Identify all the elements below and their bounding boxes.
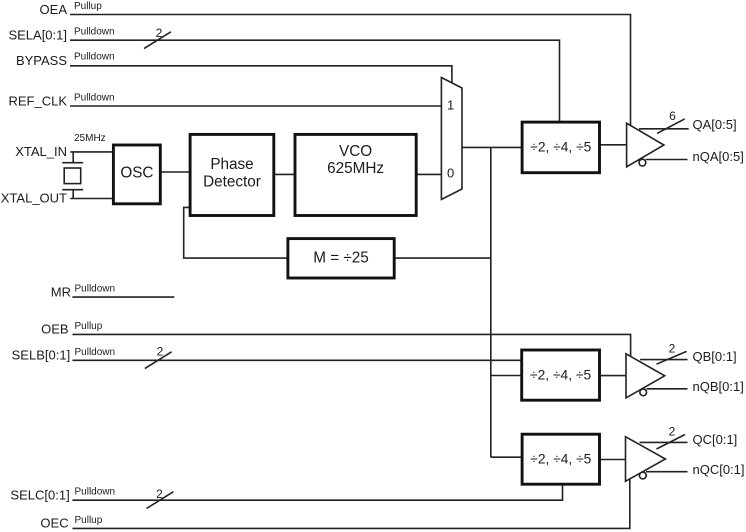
svg-text:Pulldown: Pulldown (75, 347, 116, 358)
svg-text:2: 2 (156, 26, 163, 40)
svg-text:2: 2 (669, 342, 676, 356)
svg-text:÷2, ÷4, ÷5: ÷2, ÷4, ÷5 (530, 140, 591, 155)
svg-text:XTAL_IN: XTAL_IN (15, 144, 67, 159)
svg-text:M = ÷25: M = ÷25 (313, 250, 369, 267)
svg-text:OSC: OSC (120, 164, 153, 181)
svg-text:QC[0:1]: QC[0:1] (693, 432, 738, 447)
svg-text:Pulldown: Pulldown (74, 52, 115, 63)
svg-text:SELC[0:1]: SELC[0:1] (10, 488, 69, 503)
svg-text:OEC: OEC (40, 516, 68, 531)
svg-text:6: 6 (669, 109, 676, 123)
svg-text:MR: MR (51, 284, 71, 299)
svg-text:÷2, ÷4, ÷5: ÷2, ÷4, ÷5 (530, 368, 591, 383)
svg-text:Pulldown: Pulldown (74, 93, 115, 104)
svg-text:Pullup: Pullup (75, 515, 103, 526)
svg-text:QB[0:1]: QB[0:1] (693, 349, 737, 364)
svg-text:2: 2 (157, 344, 164, 358)
svg-text:nQC[0:1]: nQC[0:1] (693, 462, 745, 477)
svg-text:REF_CLK: REF_CLK (8, 93, 67, 108)
svg-text:BYPASS: BYPASS (16, 53, 67, 68)
svg-text:Pullup: Pullup (74, 1, 102, 12)
svg-text:÷2, ÷4, ÷5: ÷2, ÷4, ÷5 (530, 452, 591, 467)
svg-text:nQA[0:5]: nQA[0:5] (693, 149, 744, 164)
svg-text:nQB[0:1]: nQB[0:1] (693, 379, 744, 394)
svg-text:Pulldown: Pulldown (74, 27, 115, 38)
svg-text:0: 0 (447, 165, 454, 180)
svg-text:OEB: OEB (41, 322, 68, 337)
svg-text:VCO: VCO (339, 143, 372, 160)
svg-text:Pulldown: Pulldown (75, 284, 116, 295)
svg-text:Pulldown: Pulldown (75, 487, 116, 498)
svg-text:XTAL_OUT: XTAL_OUT (1, 191, 67, 206)
svg-text:1: 1 (447, 97, 454, 112)
svg-text:OEA: OEA (40, 2, 68, 17)
svg-text:Phase: Phase (210, 156, 253, 173)
svg-text:SELB[0:1]: SELB[0:1] (12, 348, 71, 363)
svg-text:25MHz: 25MHz (74, 133, 106, 144)
svg-text:QA[0:5]: QA[0:5] (693, 117, 737, 132)
svg-text:2: 2 (669, 425, 676, 439)
svg-text:SELA[0:1]: SELA[0:1] (8, 28, 67, 43)
svg-text:2: 2 (156, 487, 163, 501)
svg-text:625MHz: 625MHz (327, 160, 384, 177)
svg-text:Pullup: Pullup (75, 321, 103, 332)
svg-text:Detector: Detector (203, 173, 261, 190)
